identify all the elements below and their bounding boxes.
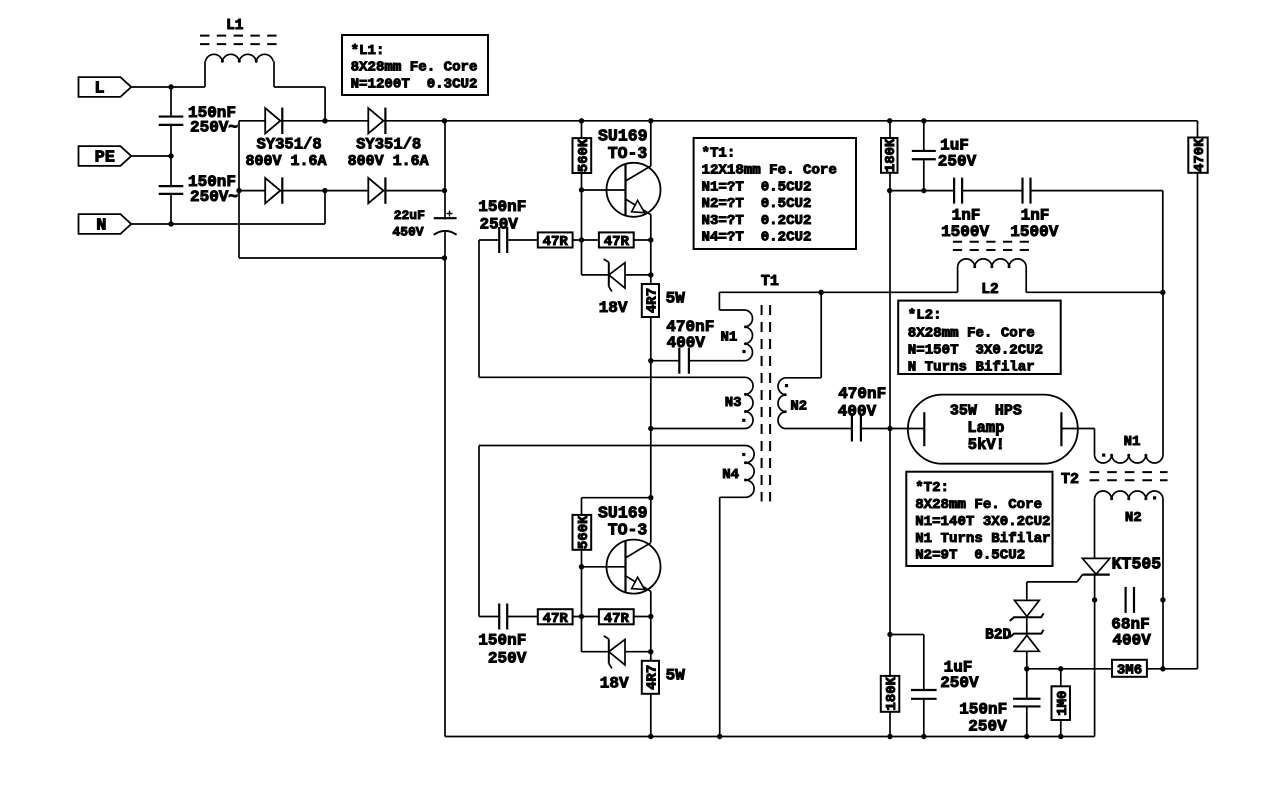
svg-text:SU169: SU169 (598, 504, 648, 523)
svg-text:*L1:: *L1: (351, 43, 385, 59)
svg-text:250V~: 250V~ (190, 118, 238, 136)
svg-text:T1: T1 (761, 273, 779, 290)
svg-text:N2=?T 0.5CU2: N2=?T 0.5CU2 (702, 196, 812, 212)
svg-text:800V 1.6A: 800V 1.6A (245, 153, 326, 170)
svg-text:250V: 250V (488, 649, 527, 667)
svg-text:L2: L2 (981, 282, 998, 298)
svg-text:470nF: 470nF (838, 385, 886, 403)
svg-text:8X28mm Fe. Core: 8X28mm Fe. Core (915, 497, 1042, 513)
svg-text:5kV!: 5kV! (968, 436, 1005, 454)
svg-text:12X18mm Fe. Core: 12X18mm Fe. Core (702, 163, 837, 179)
svg-text:N2=9T 0.5CU2: N2=9T 0.5CU2 (915, 547, 1025, 563)
svg-text:250V: 250V (940, 674, 979, 692)
svg-text:400V: 400V (667, 334, 706, 352)
svg-text:N2: N2 (1125, 510, 1142, 526)
svg-text:N=150T 3X0.2CU2: N=150T 3X0.2CU2 (908, 343, 1043, 359)
svg-text:SY351/8: SY351/8 (257, 135, 322, 153)
svg-text:1500V: 1500V (1010, 223, 1058, 241)
svg-text:400V: 400V (1112, 631, 1151, 649)
svg-text:N1: N1 (720, 330, 737, 346)
svg-text:1500V: 1500V (941, 223, 989, 241)
svg-text:1M0: 1M0 (1055, 691, 1071, 716)
svg-text:47R: 47R (543, 234, 569, 250)
svg-text:250V: 250V (480, 215, 519, 233)
svg-text:47R: 47R (604, 234, 630, 250)
svg-text:T2: T2 (1061, 471, 1079, 488)
svg-text:4R7: 4R7 (644, 665, 660, 690)
svg-text:8X28mm Fe. Core: 8X28mm Fe. Core (351, 60, 478, 76)
svg-text:KT505: KT505 (1112, 555, 1162, 574)
svg-text:SU169: SU169 (598, 127, 648, 146)
svg-text:N4=?T 0.2CU2: N4=?T 0.2CU2 (702, 230, 812, 246)
svg-text:TO-3: TO-3 (608, 144, 648, 163)
svg-text:47R: 47R (543, 611, 569, 627)
svg-text:L: L (94, 80, 104, 99)
svg-text:250V: 250V (938, 152, 977, 170)
svg-text:PE: PE (95, 149, 115, 168)
svg-text:*T1:: *T1: (702, 146, 736, 162)
svg-text:470K: 470K (1192, 138, 1208, 172)
svg-text:560K: 560K (576, 515, 592, 549)
svg-text:TO-3: TO-3 (608, 521, 648, 540)
svg-text:N1=?T 0.5CU2: N1=?T 0.5CU2 (702, 179, 812, 195)
svg-text:SY351/8: SY351/8 (356, 135, 421, 153)
svg-text:5W: 5W (666, 290, 686, 308)
svg-text:180K: 180K (883, 138, 899, 172)
svg-text:1nF: 1nF (952, 206, 981, 224)
svg-text:180K: 180K (884, 676, 900, 710)
svg-text:N3: N3 (725, 395, 742, 411)
svg-text:47R: 47R (604, 611, 630, 627)
svg-text:35W HPS: 35W HPS (950, 403, 1022, 420)
svg-text:B2D: B2D (985, 627, 1011, 643)
svg-text:560K: 560K (576, 138, 592, 172)
svg-text:N1=140T 3X0.2CU2: N1=140T 3X0.2CU2 (915, 514, 1050, 530)
svg-text:*L2:: *L2: (908, 307, 942, 323)
svg-text:N2: N2 (790, 398, 807, 414)
svg-text:800V 1.6A: 800V 1.6A (348, 153, 429, 170)
svg-text:N3=?T 0.2CU2: N3=?T 0.2CU2 (702, 213, 812, 229)
svg-text:*T2:: *T2: (915, 480, 949, 496)
svg-text:N: N (96, 217, 106, 236)
svg-text:N1 Turns Bifilar: N1 Turns Bifilar (915, 531, 1050, 547)
svg-text:22uF: 22uF (394, 208, 425, 223)
svg-text:400V: 400V (838, 403, 877, 421)
svg-text:150nF: 150nF (959, 701, 1007, 719)
svg-text:8X28mm Fe. Core: 8X28mm Fe. Core (908, 325, 1035, 341)
svg-text:450V: 450V (392, 224, 423, 239)
svg-text:N1: N1 (1124, 434, 1141, 450)
svg-text:150nF: 150nF (478, 198, 526, 216)
svg-text:5W: 5W (666, 666, 686, 684)
svg-text:18V: 18V (599, 299, 628, 317)
svg-text:250V: 250V (968, 717, 1007, 735)
svg-text:1nF: 1nF (1021, 206, 1050, 224)
svg-text:4R7: 4R7 (644, 288, 660, 313)
svg-text:Lamp: Lamp (967, 419, 1004, 437)
svg-text:L1: L1 (226, 18, 244, 34)
svg-text:18V: 18V (600, 674, 629, 692)
svg-text:150nF: 150nF (478, 632, 526, 650)
svg-text:3M6: 3M6 (1117, 662, 1142, 678)
svg-text:N=1200T 0.3CU2: N=1200T 0.3CU2 (351, 77, 478, 93)
svg-text:N4: N4 (722, 467, 739, 483)
svg-text:470nF: 470nF (666, 318, 714, 336)
svg-text:N Turns Bifilar: N Turns Bifilar (908, 360, 1035, 376)
svg-text:250V~: 250V~ (190, 188, 238, 206)
